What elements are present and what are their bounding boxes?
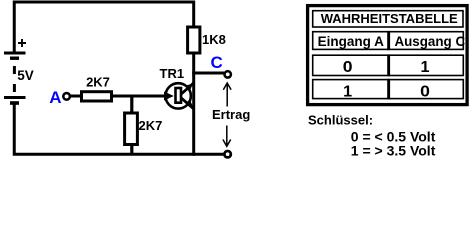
svg-text:Eingang A: Eingang A <box>318 34 384 49</box>
svg-text:C: C <box>211 53 223 72</box>
svg-text:0: 0 <box>343 59 353 76</box>
svg-text:0: 0 <box>420 83 430 100</box>
truth table header cell Eingang A <box>313 32 390 50</box>
battery BT1 plus sign <box>18 39 26 47</box>
svg-text:TR1: TR1 <box>160 66 185 81</box>
svg-text:Ausgang C: Ausgang C <box>394 34 465 49</box>
svg-text:2K7: 2K7 <box>86 75 110 90</box>
resistor 2K7 vertical body <box>125 113 138 145</box>
transistor TR1 emitter stroke <box>181 98 193 109</box>
battery BT1 dash 2 <box>13 84 16 92</box>
svg-text:WAHRHEITSTABELLE: WAHRHEITSTABELLE <box>321 11 458 26</box>
resistor 1K8 body <box>188 27 200 53</box>
output down arrow <box>223 126 231 147</box>
truth table outer border <box>308 6 468 105</box>
wire resistor to transistor base <box>113 95 166 98</box>
svg-text:2K7: 2K7 <box>139 118 163 133</box>
svg-text:A: A <box>49 88 61 107</box>
output up arrow <box>223 83 231 107</box>
transistor TR1 emitter arrowhead <box>186 99 193 106</box>
truth table row1 cell right <box>388 55 463 75</box>
svg-text:Schlüssel:: Schlüssel: <box>308 112 373 127</box>
transistor TR1 base bar <box>176 88 182 103</box>
battery BT1 bottom short plate <box>10 101 19 105</box>
wire to C terminal <box>192 72 224 75</box>
truth table row2 cell right <box>388 80 463 99</box>
truth table title cell <box>313 11 463 27</box>
svg-text:5V: 5V <box>17 68 34 83</box>
svg-text:Ertrag: Ertrag <box>212 107 250 122</box>
truth table row1 cell left <box>313 55 390 75</box>
transistor TR1 base arrow <box>164 92 174 101</box>
battery BT1 top short plate <box>10 57 19 60</box>
resistor 2K7 horizontal body <box>82 92 112 101</box>
wire junction drop to lower resistor <box>130 96 133 113</box>
transistor TR1 circle <box>166 83 191 108</box>
wire collector branch vertical <box>192 55 195 156</box>
wire lower resistor to bottom rail <box>130 145 133 155</box>
battery BT1 dash 1 <box>13 66 16 74</box>
svg-text:1 = > 3.5 Volt: 1 = > 3.5 Volt <box>351 143 436 159</box>
svg-text:1K8: 1K8 <box>202 32 226 47</box>
battery BT1 bottom long plate <box>4 96 26 99</box>
bottom output terminal circle <box>224 151 230 157</box>
battery BT1 top long plate <box>4 52 26 55</box>
wire bottom rail <box>14 103 223 154</box>
wire A terminal to R base resistor <box>71 95 83 98</box>
svg-text:1: 1 <box>421 59 430 76</box>
node C terminal circle <box>225 71 231 77</box>
transistor TR1 collector stroke <box>181 83 193 94</box>
truth table row2 cell left <box>313 80 390 99</box>
node A terminal circle <box>63 93 70 100</box>
truth table header cell Ausgang C <box>388 32 463 50</box>
svg-text:1: 1 <box>343 83 352 100</box>
wire top/left/right loop <box>14 2 193 52</box>
